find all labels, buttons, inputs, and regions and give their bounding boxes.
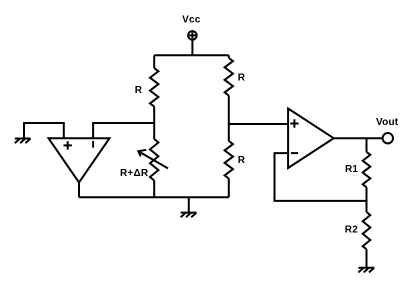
svg-text:R2: R2 — [345, 224, 358, 235]
svg-text:R1: R1 — [345, 164, 358, 175]
svg-text:Vcc: Vcc — [182, 14, 201, 25]
svg-text:R+ΔR: R+ΔR — [120, 168, 149, 179]
svg-text:R: R — [135, 85, 143, 96]
svg-text:R: R — [238, 72, 246, 83]
svg-text:R: R — [238, 155, 246, 166]
svg-text:Vout: Vout — [376, 117, 399, 128]
